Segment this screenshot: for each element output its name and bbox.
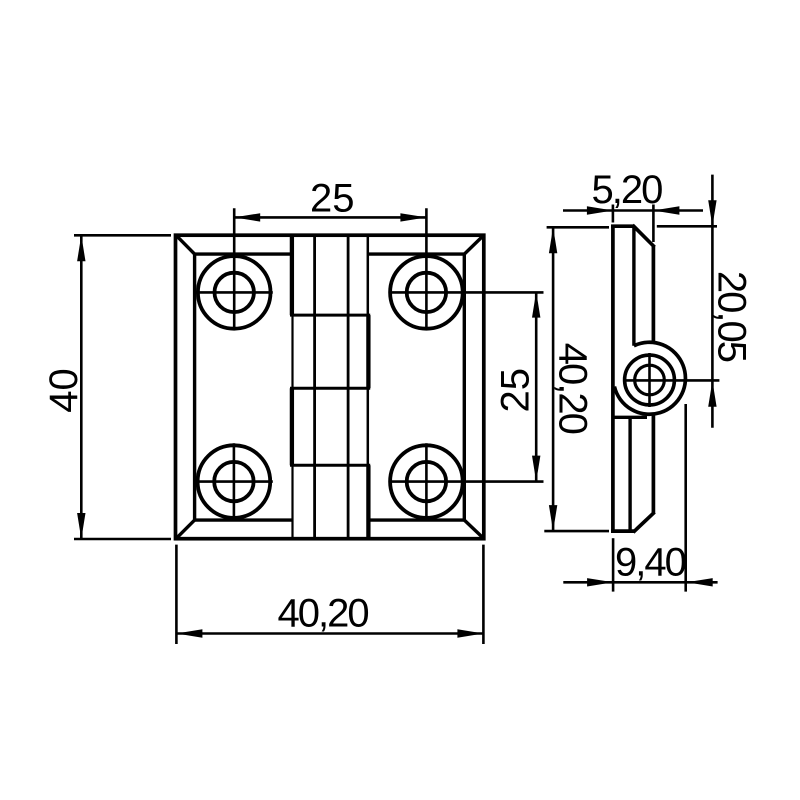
dimension 25 right top arrow (532, 292, 540, 318)
knuckle strip right line segment 4 thick (366, 465, 370, 539)
hole top-right horizontal crosshair and extension (390, 291, 544, 294)
side view bottom edge (611, 529, 635, 533)
side view left edge (611, 226, 615, 531)
hole top-left inner circle (215, 273, 254, 312)
front view inner rect top edge right part (368, 252, 466, 255)
knuckle divider 1 (290, 314, 370, 317)
dimension 40,20 side bottom arrow (549, 505, 557, 531)
svg-text:5,20: 5,20 (591, 168, 662, 212)
dimension 40 left line (80, 235, 83, 539)
hole bottom-left horizontal crosshair (196, 480, 273, 483)
dimension 5,20 left arrow (587, 206, 613, 214)
side view bottom chamfer (633, 512, 654, 532)
hole bottom-right vertical crosshair (425, 443, 428, 520)
side view right edge above knuckle (652, 246, 656, 342)
svg-text:25: 25 (310, 176, 355, 220)
front view corner chamfer top-left (176, 235, 195, 255)
dimension 20,05 line (711, 175, 714, 428)
side view knuckle horizontal crosshair and extension (625, 379, 720, 382)
knuckle strip left line segment 2 thin (291, 315, 293, 388)
dimension 40,20 bottom left arrow (176, 629, 202, 637)
hole top-right vertical crosshair and extension (425, 208, 428, 330)
dimension 9,40 right arrow (687, 578, 713, 586)
front view outer square (176, 235, 484, 539)
svg-text:20,05: 20,05 (709, 271, 753, 362)
side view knuckle middle circle (625, 355, 675, 405)
svg-text:9,40: 9,40 (615, 541, 686, 585)
dimension 5,20 right arrow (653, 206, 679, 214)
front view corner chamfer bottom-right (463, 519, 483, 538)
side view top edge (611, 224, 634, 228)
svg-text:25: 25 (494, 368, 538, 413)
dimension 5,20 extension right (652, 205, 655, 243)
hole bottom-left outer circle (198, 445, 271, 518)
dimension 20,05 extension top (657, 225, 717, 228)
front view inner rect bottom edge left part (193, 518, 292, 521)
dimension 9,40 extension left (612, 538, 615, 591)
hole top-right outer circle (390, 256, 463, 329)
dimension 40,20 side extension bottom (544, 530, 609, 533)
side view middle line below knuckle (628, 417, 631, 531)
dimension 9,40 line (563, 581, 717, 584)
front view inner rect right edge (463, 254, 466, 520)
dimension 25 top left arrow (234, 213, 260, 221)
hole bottom-right outer circle (390, 445, 463, 518)
knuckle strip inner line left (313, 235, 316, 539)
front view corner chamfer bottom-left (176, 519, 195, 538)
dimension 5,20 extension left (612, 205, 615, 223)
dimension 40 left extension bottom (74, 538, 171, 541)
dimension 40 left top arrow (77, 235, 85, 261)
hole top-right inner circle (407, 273, 446, 312)
dimension 40 left bottom arrow (77, 513, 85, 539)
side view knuckle inner circle (635, 365, 665, 395)
knuckle divider 3 (290, 464, 370, 467)
dimension 25 top line (234, 216, 426, 219)
front view corner chamfer top-right (463, 235, 483, 255)
knuckle strip left line segment 3 thick (290, 388, 294, 465)
knuckle strip right line segment 2 thick (366, 315, 370, 388)
dimension 20,05 bottom arrow (708, 381, 716, 407)
knuckle strip inner line right (347, 235, 350, 539)
svg-text:40: 40 (42, 368, 86, 413)
side view top chamfer (633, 225, 655, 247)
front view inner rect bottom edge right part (368, 518, 466, 521)
svg-text:40,20: 40,20 (551, 343, 595, 434)
knuckle strip right line segment 1 thin (367, 235, 370, 315)
dimension 25 top right arrow (400, 213, 426, 221)
knuckle divider 2 (290, 387, 370, 390)
dimension 40,20 bottom extension left (175, 545, 178, 644)
dimension 40,20 bottom line (176, 632, 483, 635)
dimension 9,40 left arrow (587, 578, 613, 586)
dimension 40,20 side line (552, 227, 555, 531)
dimension 20,05 top arrow (708, 200, 716, 226)
dimension 40,20 bottom extension right (482, 545, 485, 644)
hole bottom-left inner circle (214, 462, 253, 501)
svg-text:40,20: 40,20 (278, 591, 369, 635)
hole bottom-left vertical crosshair (233, 443, 236, 520)
hole top-left vertical crosshair and extension (233, 208, 236, 330)
dimension 40,20 side top arrow (549, 227, 557, 253)
side view knuckle vertical crosshair (648, 353, 651, 407)
hole top-left outer circle (198, 256, 271, 329)
hole bottom-right inner circle (407, 462, 446, 501)
side view knuckle ledge (613, 416, 647, 419)
dimension 9,40 extension right (684, 404, 687, 592)
front view inner rect top edge left part (193, 252, 292, 255)
dimension 25 right bottom arrow (532, 456, 540, 482)
dimension 25 right line (535, 292, 538, 482)
knuckle strip right line segment 3 thin (367, 388, 370, 465)
side view middle line above knuckle (632, 226, 635, 346)
front view inner rect left edge (193, 254, 196, 520)
dimension 40 left extension top (74, 234, 171, 237)
side view right edge below knuckle (652, 414, 656, 514)
dimension 5,20 line (563, 209, 703, 212)
dimension 40,20 bottom right arrow (457, 629, 483, 637)
hole bottom-right horizontal crosshair and extension (390, 480, 544, 483)
hole top-left horizontal crosshair (196, 291, 273, 294)
knuckle strip left line segment 4 thin (291, 465, 293, 539)
knuckle strip left line segment 1 thick (290, 235, 294, 315)
dimension 40,20 side extension top (547, 226, 609, 229)
side view knuckle outer arc (614, 342, 685, 414)
